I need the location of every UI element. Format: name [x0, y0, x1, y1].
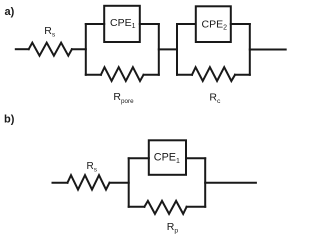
node D: right vertical of parallel network 2	[249, 24, 251, 75]
svg-text:Rc: Rc	[209, 91, 221, 105]
CPE1 box (panel b)	[149, 140, 186, 175]
wire top branch right (net1)	[140, 23, 159, 25]
resistor Rp	[144, 201, 186, 214]
wire bottom branch right (net1)	[144, 74, 159, 76]
wire top branch left (panel b)	[129, 157, 149, 159]
wire bottom branch right (net2)	[235, 74, 250, 76]
svg-text:Rs: Rs	[87, 161, 98, 173]
svg-text:Rs: Rs	[44, 25, 56, 38]
wire bottom branch left (net1)	[86, 74, 101, 76]
node E: left vertical of parallel network (panel b)	[128, 158, 130, 207]
wire right lead panel b	[205, 182, 256, 184]
wire bottom branch left (net2)	[177, 74, 192, 76]
CPE2 box	[196, 6, 231, 42]
resistor Rs (panel a)	[29, 43, 72, 56]
wire left lead panel a	[16, 48, 29, 50]
wire top branch right (net2)	[231, 23, 250, 25]
node A: left vertical of parallel network 1	[85, 24, 87, 75]
wire bottom branch right (panel b)	[187, 206, 206, 208]
wire connector net1 to net2	[159, 48, 177, 50]
svg-text:b): b)	[4, 114, 15, 126]
wire bottom branch left (panel b)	[129, 206, 145, 208]
CPE1 box (panel a)	[104, 6, 140, 42]
wire top branch right (panel b)	[186, 157, 205, 159]
svg-text:CPE2: CPE2	[202, 18, 228, 31]
svg-text:CPE1: CPE1	[110, 17, 136, 30]
resistor Rs (panel b)	[68, 175, 110, 189]
svg-text:Rpore: Rpore	[113, 91, 134, 105]
svg-text:a): a)	[5, 6, 15, 18]
wire top branch left (net1)	[86, 23, 104, 25]
node B: right vertical of parallel network 1	[158, 24, 160, 75]
wire left lead panel b	[53, 182, 68, 184]
node C: left vertical of parallel network 2	[176, 24, 178, 75]
svg-text:Rp: Rp	[167, 221, 179, 235]
wire Rs to node A	[72, 48, 86, 50]
node F: right vertical of parallel network (panel b)	[204, 158, 206, 207]
wire Rs to node E (panel b)	[110, 182, 129, 184]
wire top branch left (net2)	[177, 23, 196, 25]
svg-text:CPE1: CPE1	[154, 152, 180, 165]
resistor Rc	[192, 67, 235, 81]
wire right lead panel a	[250, 49, 286, 51]
resistor Rpore	[101, 67, 144, 81]
